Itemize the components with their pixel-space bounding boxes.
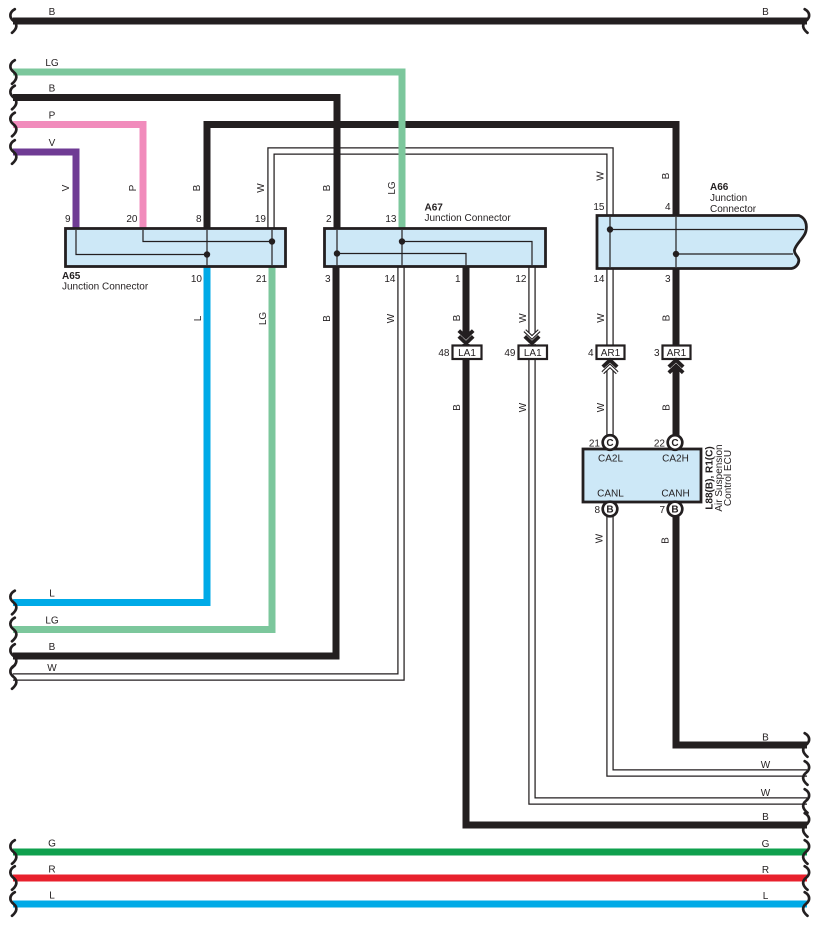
- A66 internal bus lower to torn edge: [676, 253, 793, 255]
- wire B from A66 pin 3 down to AR1 arrow: [673, 266, 680, 360]
- svg-text:B: B: [606, 505, 613, 516]
- svg-text:W: W: [595, 533, 606, 543]
- svg-text:CA2H: CA2H: [662, 454, 689, 465]
- wire break symbol right edge y=773: [803, 761, 809, 785]
- wire break symbol left edge y=602.5: [10, 591, 16, 615]
- svg-text:B: B: [452, 404, 463, 411]
- svg-text:W: W: [761, 788, 771, 799]
- svg-text:13: 13: [385, 214, 397, 225]
- wire B from A65 pin 8 over to A66 pin 4: [207, 125, 676, 232]
- A66 internal bus upper to torn edge: [610, 229, 804, 231]
- svg-text:B: B: [322, 184, 333, 191]
- svg-text:7: 7: [659, 505, 665, 516]
- ECU terminal 8 connector B: [594, 502, 617, 517]
- svg-text:W: W: [518, 313, 529, 323]
- svg-text:3: 3: [665, 274, 671, 285]
- svg-text:14: 14: [593, 274, 605, 285]
- svg-text:L: L: [193, 315, 204, 321]
- svg-text:W: W: [596, 402, 607, 412]
- wire P from left edge to A65 pin 20: [13, 125, 143, 232]
- wire break symbol left edge y=677: [10, 665, 16, 689]
- wire break symbol left edge y=878: [10, 866, 16, 890]
- junction connector A67 box: [325, 229, 546, 267]
- wire LG from left edge to A67 pin 13: [13, 72, 402, 231]
- connector arrow into AR1 pin 3: [669, 360, 683, 373]
- svg-text:15: 15: [593, 202, 605, 213]
- svg-text:V: V: [61, 184, 72, 191]
- svg-text:B: B: [662, 404, 673, 411]
- svg-text:L: L: [49, 891, 55, 902]
- wire break symbol left edge y=124.5: [10, 113, 16, 137]
- ECU terminal 22 connector C: [654, 435, 682, 450]
- wire break symbol right edge y=801: [803, 789, 809, 813]
- wire break symbol left edge y=629.5: [10, 618, 16, 642]
- wire break symbol left edge y=21: [10, 9, 16, 33]
- svg-text:B: B: [452, 314, 463, 321]
- svg-text:LG: LG: [45, 58, 59, 69]
- wire break symbol right edge y=852: [803, 840, 809, 864]
- wire break symbol left edge y=904: [10, 892, 16, 916]
- svg-text:LA1: LA1: [524, 348, 542, 359]
- svg-text:14: 14: [384, 274, 396, 285]
- A67 internal link pin 2 to pin 3: [336, 230, 338, 265]
- svg-text:21: 21: [256, 274, 268, 285]
- wire break symbol right edge y=745: [803, 733, 809, 757]
- A66 internal link pin 4 to pin 3: [675, 217, 677, 267]
- svg-text:CANL: CANL: [597, 489, 624, 500]
- svg-text:W: W: [518, 402, 529, 412]
- svg-text:Control ECU: Control ECU: [723, 450, 734, 506]
- wire B from A67 pin 1 down to LA1 arrow: [463, 264, 470, 337]
- svg-text:AR1: AR1: [667, 348, 687, 359]
- A65 internal junction node pins 9/8/10: [204, 251, 210, 257]
- wire W from A66 pin 14 down to AR1 arrow: [606, 266, 613, 360]
- svg-text:L: L: [763, 891, 769, 902]
- svg-text:B: B: [661, 172, 672, 179]
- wire R bottom full width: [13, 875, 807, 882]
- connector arrow into LA1 pin 48: [459, 331, 473, 344]
- svg-text:19: 19: [255, 214, 267, 225]
- wire break symbol left edge y=152: [10, 140, 16, 164]
- A66 internal junction node pins 15/14: [607, 226, 613, 232]
- svg-text:L: L: [49, 589, 55, 600]
- inline connector LA1 pin 48: [438, 346, 481, 360]
- inline connector AR1 pin 4: [588, 346, 625, 360]
- svg-text:P: P: [128, 184, 139, 191]
- svg-text:B: B: [322, 315, 333, 322]
- wire break symbol right edge y=904: [803, 892, 809, 916]
- svg-text:B: B: [762, 733, 769, 744]
- wire V from left edge to A65 pin 9: [13, 152, 76, 231]
- svg-text:LA1: LA1: [458, 348, 476, 359]
- svg-text:4: 4: [588, 348, 594, 359]
- A66 internal junction node pins 4/3: [673, 251, 679, 257]
- wire W from A67 pin 14 down to left edge: [13, 264, 401, 677]
- svg-text:B: B: [671, 505, 678, 516]
- svg-text:LG: LG: [258, 312, 269, 326]
- wire break symbol left edge y=97.5: [10, 86, 16, 110]
- svg-text:2: 2: [326, 214, 332, 225]
- wire L from A65 pin 10 down to left edge: [13, 264, 207, 603]
- svg-text:3: 3: [325, 274, 331, 285]
- svg-text:AR1: AR1: [601, 348, 621, 359]
- wire W from A67 pin 12 down to LA1 arrow: [528, 264, 535, 333]
- junction connector A65 box: [66, 229, 286, 267]
- wire B from AR1 pin 3 down to ECU terminal 22: [673, 366, 680, 436]
- svg-text:22: 22: [654, 439, 666, 450]
- wire break symbol right edge y=878: [803, 866, 809, 890]
- connector arrow into LA1 pin 49: [525, 331, 539, 344]
- wire W from A65 pin 19 up over to A66 pin 15: [271, 151, 610, 231]
- A65 internal link pin 20 to bus: [143, 230, 272, 242]
- svg-text:W: W: [256, 183, 267, 193]
- svg-text:20: 20: [126, 214, 138, 225]
- wire B from A67 pin 3 down to left edge: [13, 264, 336, 656]
- svg-text:B: B: [192, 184, 203, 191]
- wire B top battery feed full width: [13, 18, 807, 25]
- wire G bottom full width: [13, 849, 807, 856]
- inline connector LA1 pin 49: [504, 346, 547, 360]
- A67 internal bus to pin 12: [402, 242, 532, 266]
- svg-text:W: W: [47, 663, 57, 674]
- svg-text:C: C: [606, 438, 613, 449]
- svg-text:B: B: [762, 7, 769, 18]
- svg-text:B: B: [662, 314, 673, 321]
- A67 internal link pin 13 to pin 14: [401, 230, 403, 265]
- air suspension control ECU box L88(B) R1(C): [583, 449, 701, 502]
- inline connector AR1 pin 3: [654, 346, 691, 360]
- A66 internal link pin 15 to pin 14: [609, 217, 611, 267]
- wire break symbol left edge y=656: [10, 644, 16, 668]
- wire W from ECU terminal 8 down to right edge: [610, 515, 807, 773]
- svg-text:B: B: [49, 7, 56, 18]
- wire break symbol right edge y=21: [803, 9, 809, 33]
- svg-text:3: 3: [654, 348, 660, 359]
- svg-text:B: B: [661, 537, 672, 544]
- A65 internal junction node pins 20/19/21: [269, 238, 275, 244]
- svg-text:8: 8: [594, 505, 600, 516]
- wire break symbol left edge y=72: [10, 60, 16, 84]
- wire LG from A65 pin 21 down to left edge: [13, 264, 272, 630]
- svg-text:10: 10: [191, 274, 203, 285]
- svg-text:48: 48: [438, 348, 450, 359]
- svg-text:B: B: [762, 812, 769, 823]
- svg-text:LG: LG: [387, 181, 398, 195]
- svg-text:CANH: CANH: [661, 489, 689, 500]
- svg-text:21: 21: [589, 439, 601, 450]
- wire W from AR1 pin 4 down to ECU terminal 21: [606, 370, 613, 436]
- svg-text:8: 8: [196, 214, 202, 225]
- A67 internal bus to pin 1: [337, 254, 466, 266]
- A65 internal link pin 9 to bus: [76, 230, 207, 255]
- A67 internal junction node pins 13/14/12: [399, 238, 405, 244]
- svg-text:12: 12: [515, 274, 527, 285]
- svg-text:9: 9: [65, 214, 71, 225]
- ECU terminal 21 connector C: [589, 435, 617, 450]
- svg-text:R: R: [48, 865, 55, 876]
- junction connector A66 box with torn right edge: [597, 216, 806, 269]
- svg-text:C: C: [671, 438, 678, 449]
- svg-text:4: 4: [665, 202, 671, 213]
- A65 internal link pin 8 to pin 10: [206, 230, 208, 265]
- wire B from ECU terminal 7 down to right edge: [676, 515, 807, 745]
- svg-text:P: P: [49, 111, 56, 122]
- connector arrow into AR1 pin 4: [603, 360, 617, 373]
- ECU terminal 7 connector B: [659, 502, 682, 517]
- svg-text:W: W: [596, 313, 607, 323]
- wire W from LA1 pin 49 down to right edge: [532, 344, 807, 801]
- svg-text:LG: LG: [45, 616, 59, 627]
- svg-text:B: B: [49, 84, 56, 95]
- wire break symbol right edge y=825: [803, 813, 809, 837]
- svg-text:W: W: [596, 171, 607, 181]
- svg-text:V: V: [49, 138, 56, 149]
- svg-text:1: 1: [455, 274, 461, 285]
- wire B from left edge to A67 pin 2: [13, 98, 337, 232]
- wire break symbol left edge y=852: [10, 840, 16, 864]
- svg-text:CA2L: CA2L: [598, 454, 623, 465]
- wire L bottom full width: [13, 901, 807, 908]
- svg-text:B: B: [49, 642, 56, 653]
- A67 internal junction node pins 2/3/1: [334, 250, 340, 256]
- wire B from LA1 pin 48 down to right edge: [466, 344, 807, 825]
- svg-text:G: G: [48, 839, 56, 850]
- svg-text:R: R: [762, 865, 769, 876]
- svg-text:W: W: [386, 313, 397, 323]
- svg-text:W: W: [761, 760, 771, 771]
- svg-text:G: G: [762, 839, 770, 850]
- svg-text:49: 49: [504, 348, 516, 359]
- A65 internal link pin 19 to pin 21: [271, 230, 273, 265]
